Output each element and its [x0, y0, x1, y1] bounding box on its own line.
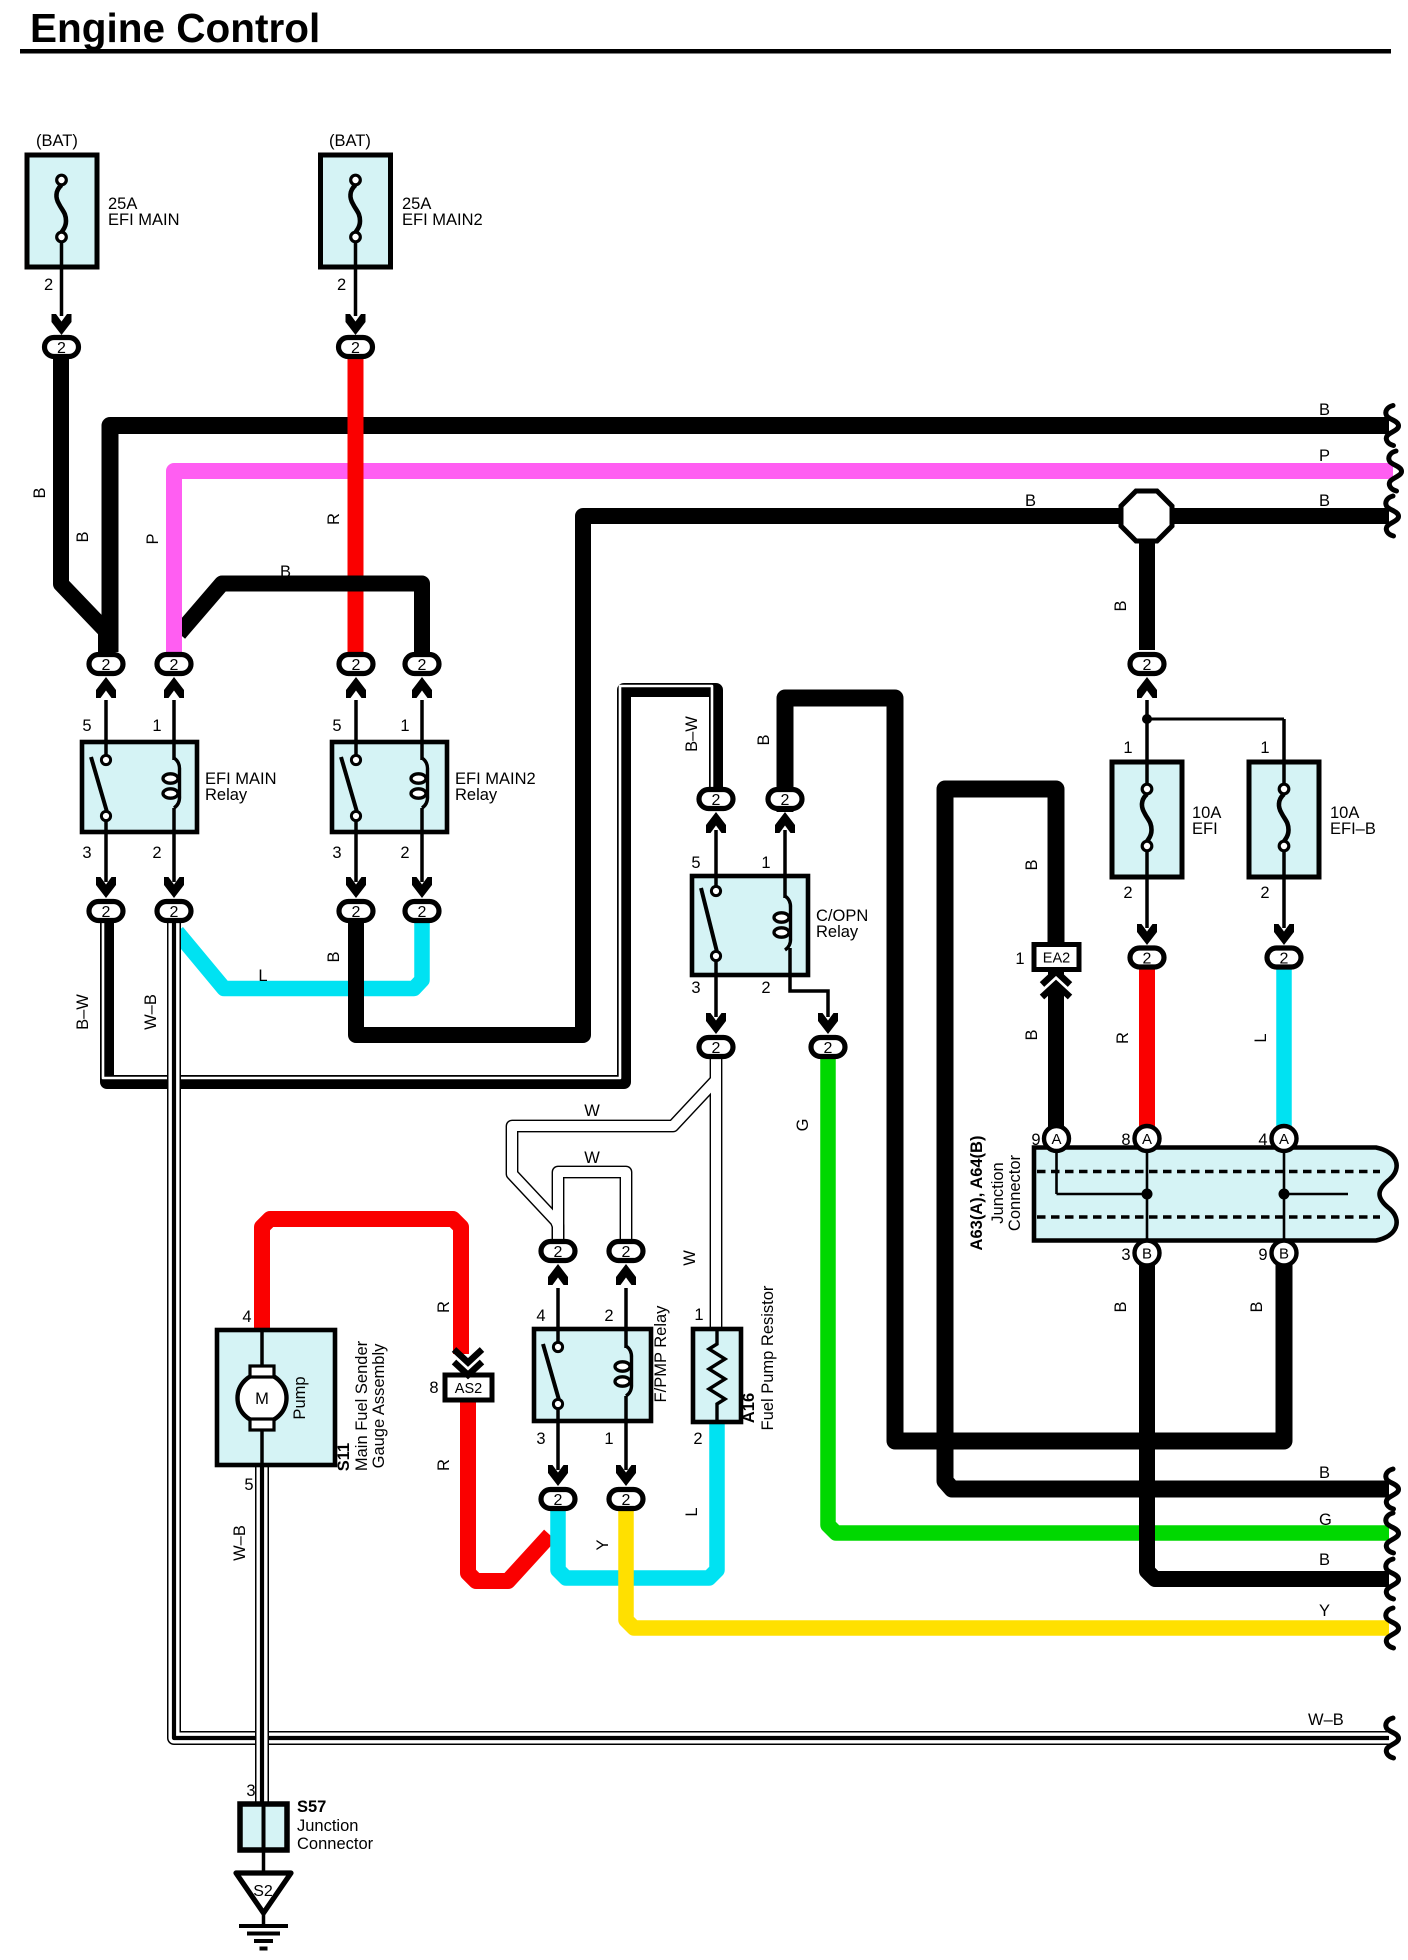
- oval 2 at EFI MAIN pin3: [89, 902, 123, 921]
- svg-text:2: 2: [604, 1307, 613, 1325]
- oval 2 at EFI MAIN pin1: [157, 655, 191, 674]
- svg-text:B: B: [1112, 600, 1130, 611]
- wire B from C/OPN pin1 feed hook to junction 9B: [785, 698, 1284, 1441]
- svg-text:B: B: [1023, 1029, 1041, 1040]
- svg-text:L: L: [683, 1507, 701, 1516]
- svg-text:Connector: Connector: [1006, 1154, 1024, 1231]
- svg-text:B: B: [1319, 1551, 1330, 1569]
- oval 2 at EFI MAIN2 pin1: [405, 655, 439, 674]
- svg-text:2: 2: [761, 979, 770, 997]
- relay C/OPN box: [692, 876, 808, 975]
- svg-text:B: B: [1319, 1464, 1330, 1482]
- svg-text:S11: S11: [335, 1443, 353, 1471]
- svg-text:1: 1: [761, 854, 770, 872]
- wire B-W from EFI MAIN pin3 to C/OPN pin5: [107, 690, 716, 1082]
- junction pin circle 4A: [1272, 1126, 1297, 1151]
- wire B bus2 diagonal (under pink): [179, 584, 262, 634]
- svg-text:B: B: [280, 563, 291, 581]
- arrow into F/PMP pin2 oval: [616, 1264, 636, 1285]
- squiggle G bus y1533: [1386, 1513, 1399, 1553]
- svg-text:W: W: [584, 1102, 600, 1120]
- relay C/OPN switch: [701, 888, 717, 952]
- junction pin circle 9A: [1044, 1126, 1069, 1151]
- wire B from ECU via EA2 to bus (y1489): [945, 789, 1389, 1489]
- svg-text:5: 5: [82, 717, 91, 735]
- fuse 10A EFI-B box: [1249, 762, 1319, 877]
- wire thin link above 10A fuses with junction dot: [1147, 718, 1284, 721]
- svg-text:4: 4: [242, 1308, 251, 1326]
- oval 2 at EFI MAIN pin2: [157, 902, 191, 921]
- oval 2 at F/PMP pin3: [541, 1490, 575, 1509]
- svg-text:B: B: [1025, 492, 1036, 510]
- svg-text:1: 1: [694, 1306, 703, 1324]
- wire G (green) from C/OPN pin2 to right edge: [828, 1058, 1389, 1533]
- wire R from fuse EFI MAIN2: [348, 352, 364, 652]
- arrow into EFI MAIN pin2 oval: [164, 877, 184, 898]
- svg-text:B: B: [1248, 1301, 1266, 1312]
- svg-text:3: 3: [691, 979, 700, 997]
- svg-text:1: 1: [152, 717, 161, 735]
- arrow into F/PMP pin3 oval: [548, 1465, 568, 1486]
- relay EFI MAIN2 coil: [422, 758, 428, 808]
- wire B from junction 3B to right edge (y1579): [1147, 1265, 1389, 1579]
- wire L (cyan) between relay coil ovals: [177, 918, 422, 989]
- wire L from 10A EFI-B fuse to junction 4A: [1276, 968, 1292, 1128]
- wire W black outlines (C/OPN pin3 to A16 pin1 + branch to F/PMP): [512, 1058, 716, 1329]
- oval 2 at F/PMP pin1: [609, 1490, 643, 1509]
- relay EFI MAIN2 box: [332, 742, 447, 832]
- relay F/PMP box: [534, 1329, 651, 1421]
- wire B-W white stripe: [103, 686, 712, 1078]
- junction connector S57: [240, 1804, 287, 1850]
- svg-text:EFI: EFI: [1192, 820, 1218, 838]
- arrow into C/OPN pin5 oval: [706, 812, 726, 833]
- fuse 25A EFI MAIN2 box: [321, 155, 391, 267]
- junction pin circle 8A: [1135, 1126, 1160, 1151]
- squiggle Y bus y1628: [1386, 1608, 1399, 1648]
- oval 2 under 10A EFI-B: [1267, 948, 1301, 967]
- svg-text:A: A: [1142, 1131, 1152, 1148]
- junction pin circle 3B: [1135, 1241, 1160, 1266]
- arrow into EFI MAIN2 pin5 oval: [346, 677, 366, 698]
- svg-text:1: 1: [1015, 950, 1024, 968]
- wire W-B from EFI MAIN pin2 to right edge (y1738): [174, 916, 1389, 1738]
- junction pin circle 9B: [1272, 1241, 1297, 1266]
- fuse 25A EFI MAIN box: [27, 155, 97, 267]
- wire W-B pump pin5 to S57: [255, 1465, 269, 1806]
- svg-text:1: 1: [1123, 739, 1132, 757]
- svg-text:R: R: [435, 1459, 453, 1471]
- oval 2 under octagon splice: [1130, 655, 1164, 674]
- oval 2 at F/PMP pin4: [541, 1242, 575, 1261]
- svg-text:2: 2: [693, 1430, 702, 1448]
- arrow into C/OPN pin3 oval: [706, 1013, 726, 1034]
- squiggle B bus y1579: [1386, 1559, 1399, 1599]
- svg-text:R: R: [435, 1301, 453, 1313]
- fuse 10A EFI box: [1112, 762, 1182, 877]
- arrow into octagon-branch oval: [1137, 677, 1157, 698]
- svg-text:1: 1: [604, 1430, 613, 1448]
- svg-text:S2: S2: [253, 1883, 273, 1900]
- svg-text:3: 3: [246, 1782, 255, 1800]
- arrow into F/PMP pin1 oval: [616, 1465, 636, 1486]
- pump motor M: [238, 1374, 287, 1423]
- svg-text:W–B: W–B: [142, 994, 160, 1030]
- A16 fuel pump resistor box: [693, 1329, 741, 1422]
- arrow into 10A EFI-B pin2 oval: [1274, 924, 1294, 945]
- svg-text:B: B: [74, 531, 92, 542]
- wire B from EFI MAIN2 pin3 to right bus (y516): [356, 516, 1389, 1035]
- svg-text:W–B: W–B: [231, 1525, 249, 1561]
- junction dashed internal lines: [1037, 1170, 1380, 1174]
- arrow into fuse1 oval: [52, 314, 72, 335]
- svg-text:2: 2: [337, 276, 346, 294]
- svg-text:P: P: [1319, 447, 1330, 465]
- oval 2 at EFI MAIN2 pin5: [339, 655, 373, 674]
- svg-text:B: B: [1142, 1246, 1152, 1263]
- wire L (cyan) F/PMP pin3 to A16 pin2: [558, 1418, 717, 1578]
- oval 2 at F/PMP pin2: [609, 1242, 643, 1261]
- oval 2 under fuse EFI MAIN2: [339, 338, 373, 357]
- svg-text:3: 3: [536, 1430, 545, 1448]
- oval 2 at C/OPN pin3: [699, 1038, 733, 1057]
- wire B bus2 to EFI MAIN2 pin1: [250, 584, 422, 653]
- svg-text:B: B: [1023, 859, 1041, 870]
- svg-text:Gauge Assembly: Gauge Assembly: [370, 1343, 388, 1468]
- arrow into EFI MAIN2 pin2 oval: [412, 877, 432, 898]
- relay EFI MAIN switch: [91, 757, 107, 812]
- wire B octagon splice down to oval: [1139, 530, 1155, 650]
- oval 2 at C/OPN pin5: [699, 790, 733, 809]
- svg-text:P: P: [144, 533, 162, 544]
- relay C/OPN coil: [785, 896, 791, 950]
- relay F/PMP coil: [626, 1346, 632, 1396]
- octagon splice symbol: [1121, 491, 1172, 541]
- svg-text:B: B: [755, 734, 773, 745]
- junction node dot 4A: [1279, 1189, 1290, 1200]
- svg-text:3: 3: [332, 844, 341, 862]
- junction connector A63/A64 box: [1034, 1148, 1397, 1241]
- svg-text:W–B: W–B: [1308, 1711, 1344, 1729]
- svg-text:Relay: Relay: [816, 923, 859, 941]
- oval 2 at EFI MAIN2 pin3: [339, 902, 373, 921]
- relay EFI MAIN box: [82, 742, 197, 832]
- arrow into EFI MAIN2 pin1 oval: [412, 677, 432, 698]
- wire P bus (pink): [174, 471, 1393, 652]
- svg-text:A16: A16: [740, 1393, 758, 1423]
- arrow into C/OPN pin1 oval: [775, 812, 795, 833]
- svg-text:Relay: Relay: [205, 786, 248, 804]
- svg-text:5: 5: [691, 854, 700, 872]
- svg-text:AS2: AS2: [455, 1381, 482, 1397]
- wire B from fuse EFI MAIN: [61, 352, 106, 652]
- squiggle W-B bus y1738: [1386, 1718, 1399, 1758]
- svg-text:9: 9: [1258, 1246, 1267, 1264]
- svg-text:W: W: [681, 1250, 699, 1266]
- svg-text:3: 3: [1121, 1246, 1130, 1264]
- svg-text:R: R: [1114, 1032, 1132, 1044]
- connector AS2: [445, 1375, 492, 1400]
- squiggle B bus y425: [1386, 406, 1399, 446]
- oval 2 at EFI MAIN2 pin2: [405, 902, 439, 921]
- svg-text:B: B: [325, 951, 343, 962]
- svg-text:L: L: [258, 967, 267, 985]
- svg-text:B–W: B–W: [74, 994, 92, 1030]
- arrow into EFI MAIN pin3 oval: [96, 877, 116, 898]
- svg-text:8: 8: [429, 1379, 438, 1397]
- svg-text:G: G: [1319, 1511, 1332, 1529]
- svg-text:Junction: Junction: [989, 1162, 1007, 1223]
- svg-text:2: 2: [152, 844, 161, 862]
- ground S2: [262, 1850, 266, 1873]
- svg-text:A: A: [1279, 1131, 1289, 1148]
- svg-text:(BAT): (BAT): [36, 132, 78, 150]
- svg-text:B: B: [1279, 1246, 1289, 1263]
- svg-text:1: 1: [1260, 739, 1269, 757]
- svg-text:B: B: [1112, 1301, 1130, 1312]
- relay F/PMP switch: [543, 1344, 559, 1400]
- svg-text:S57: S57: [297, 1798, 326, 1816]
- pump S11 assembly box: [217, 1330, 335, 1465]
- oval 2 at C/OPN pin2: [811, 1038, 845, 1057]
- svg-text:A: A: [1051, 1131, 1061, 1148]
- svg-text:3: 3: [82, 844, 91, 862]
- oval 2 under 10A EFI: [1130, 948, 1164, 967]
- svg-text:Engine Control: Engine Control: [30, 5, 320, 51]
- arrow into EFI MAIN pin1 oval: [164, 677, 184, 698]
- svg-text:5: 5: [332, 717, 341, 735]
- oval 2 at EFI MAIN pin5: [89, 655, 123, 674]
- wire R below AS2 joining L at F/PMP pin3: [468, 1399, 550, 1581]
- svg-text:4: 4: [1258, 1131, 1267, 1149]
- arrow into C/OPN pin2 oval: [818, 1013, 838, 1034]
- svg-text:L: L: [1252, 1033, 1270, 1042]
- relay EFI MAIN2 switch: [341, 757, 357, 812]
- relay C/OPN pin2 lead: [790, 948, 828, 1017]
- arrow into F/PMP pin4 oval: [548, 1264, 568, 1285]
- junction internal wires: [1055, 1149, 1058, 1194]
- oval 2 at C/OPN pin1: [768, 790, 802, 809]
- wire Y (yellow) from F/PMP pin1 to right edge: [626, 1510, 1389, 1628]
- svg-text:A63(A), A64(B): A63(A), A64(B): [968, 1136, 986, 1251]
- svg-text:9: 9: [1031, 1131, 1040, 1149]
- squiggle B bus y1489: [1386, 1469, 1399, 1509]
- svg-text:8: 8: [1121, 1131, 1130, 1149]
- svg-text:B: B: [1319, 492, 1330, 510]
- squiggle P bus y471: [1389, 451, 1402, 491]
- svg-text:G: G: [794, 1119, 812, 1132]
- wire R from pump pin4 to AS2: [262, 1219, 461, 1354]
- svg-text:W: W: [584, 1149, 600, 1167]
- oval 2 under fuse EFI MAIN: [45, 338, 79, 357]
- svg-text:2: 2: [44, 276, 53, 294]
- svg-text:Fuel Pump Resistor: Fuel Pump Resistor: [759, 1285, 777, 1430]
- arrow into EFI MAIN2 pin3 oval: [346, 877, 366, 898]
- svg-text:EFI MAIN2: EFI MAIN2: [402, 211, 483, 229]
- wire W white cores: [512, 1058, 716, 1329]
- svg-text:Y: Y: [594, 1539, 612, 1550]
- squiggle B bus y516: [1386, 496, 1399, 536]
- svg-text:(BAT): (BAT): [329, 132, 371, 150]
- svg-text:F/PMP Relay: F/PMP Relay: [652, 1305, 670, 1403]
- svg-text:1: 1: [400, 717, 409, 735]
- svg-text:Y: Y: [1319, 1602, 1330, 1620]
- svg-text:B–W: B–W: [683, 716, 701, 752]
- title underline: [20, 49, 1391, 54]
- svg-text:2: 2: [1123, 884, 1132, 902]
- arrow into EFI MAIN pin5 oval: [96, 677, 116, 698]
- svg-text:Junction: Junction: [297, 1817, 358, 1835]
- svg-text:2: 2: [400, 844, 409, 862]
- svg-text:Main Fuel Sender: Main Fuel Sender: [353, 1340, 371, 1471]
- wire B bus top (y425) with left corner down to relay oval: [110, 426, 1389, 653]
- EA2 double chevron up: [1042, 977, 1070, 990]
- arrow into 10A EFI pin2 oval: [1137, 924, 1157, 945]
- svg-text:Pump: Pump: [291, 1376, 309, 1419]
- svg-text:B: B: [31, 487, 49, 498]
- arrow into fuse2 oval: [346, 314, 366, 335]
- svg-text:2: 2: [1260, 884, 1269, 902]
- svg-text:5: 5: [244, 1476, 253, 1494]
- wire B from EA2 down to junction 9A: [1048, 965, 1064, 1130]
- svg-text:EFI MAIN: EFI MAIN: [108, 211, 180, 229]
- svg-text:EA2: EA2: [1043, 951, 1070, 967]
- svg-text:Connector: Connector: [297, 1835, 374, 1853]
- svg-text:Relay: Relay: [455, 786, 498, 804]
- relay EFI MAIN coil: [174, 758, 180, 808]
- junction node dot 8A: [1142, 1189, 1153, 1200]
- wire R from 10A EFI fuse to junction 8A: [1139, 968, 1155, 1128]
- svg-text:B: B: [1319, 401, 1330, 419]
- svg-text:4: 4: [536, 1307, 545, 1325]
- connector EA2: [1034, 945, 1079, 970]
- AS2 double chevron down: [454, 1355, 482, 1368]
- svg-text:EFI–B: EFI–B: [1330, 820, 1376, 838]
- svg-text:R: R: [325, 513, 343, 525]
- svg-text:M: M: [255, 1390, 269, 1408]
